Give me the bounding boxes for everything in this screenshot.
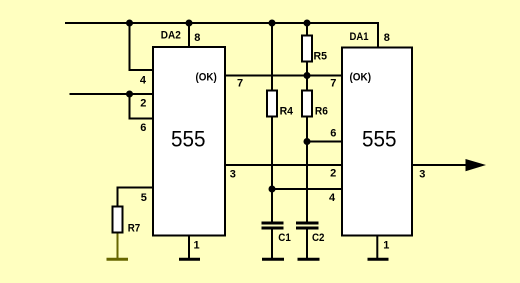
wire DA2 pin 1 to ground (188, 236, 190, 260)
capacitor C1 plates (262, 222, 284, 225)
svg-text:R7: R7 (128, 223, 141, 235)
wire net pin7: DA2 pin7 to DA1 pin7 (225, 75, 342, 77)
svg-text:1: 1 (383, 240, 389, 252)
capacitor C2 plates (296, 222, 319, 225)
wire column A: Vcc through R4 down to C1 (271, 23, 273, 223)
wire C1 lower lead (271, 228, 273, 259)
svg-text:4: 4 (140, 74, 147, 86)
svg-text:C2: C2 (312, 232, 325, 244)
resistor R6 (302, 91, 312, 117)
svg-text:(OK): (OK) (350, 71, 372, 83)
node junction on rail at column A (269, 20, 276, 27)
svg-text:1: 1 (194, 240, 200, 252)
svg-text:6: 6 (140, 122, 146, 134)
node junction on rail at DA2 pin8 (186, 20, 193, 27)
svg-text:7: 7 (237, 78, 243, 90)
ground bar under C1 (262, 258, 284, 261)
svg-text:5: 5 (141, 192, 147, 204)
wire DA2 pin 8 drop (188, 23, 190, 47)
wire DA1 pin 3 output (412, 164, 468, 166)
svg-text:R6: R6 (315, 105, 328, 117)
svg-text:DA1: DA1 (350, 31, 369, 43)
wire DA1 pin 6 stub (307, 141, 342, 143)
wire DA2 pin 5 to R7 (118, 188, 154, 208)
op-amp U2: IC DA1 555 body (342, 48, 412, 236)
wire Vcc top rail (65, 23, 378, 48)
wire net DA1 pin4 from column A (272, 188, 342, 190)
svg-text:DA2: DA2 (161, 30, 181, 42)
svg-text:555: 555 (362, 127, 397, 152)
wire branch to DA2 pin 4 (130, 23, 154, 70)
svg-text:555: 555 (171, 127, 206, 152)
wire R7 lower lead (olive) (117, 232, 119, 260)
svg-text:8: 8 (384, 32, 390, 44)
svg-text:C1: C1 (278, 232, 291, 244)
node junction DA1 pin6 / R6-C2 (304, 138, 311, 145)
svg-text:4: 4 (329, 192, 336, 204)
resistor R7 (113, 207, 123, 233)
node junction pin7 net / R5-R6 (304, 72, 311, 79)
wire C2 lower lead (306, 228, 308, 259)
wire branch DA2 pin 2 to pin 6 (130, 94, 154, 119)
svg-text:R4: R4 (280, 105, 294, 117)
svg-text:7: 7 (330, 78, 336, 90)
svg-text:(OK): (OK) (196, 71, 218, 83)
resistor R4 (267, 91, 277, 117)
svg-text:6: 6 (330, 127, 336, 139)
op-amp U1: IC DA2 555 body (153, 47, 225, 236)
svg-text:3: 3 (419, 169, 425, 181)
ground bar under C2 (298, 258, 320, 261)
node junction DA1 pin4 / column A (269, 186, 276, 193)
wire input to DA2 pin 2 (70, 93, 154, 95)
svg-text:R5: R5 (314, 50, 328, 62)
resistor R5 (302, 36, 312, 62)
ground bar under R7 (olive) (107, 258, 129, 261)
node junction DA2 pin2 (126, 91, 133, 98)
node junction on rail at column B (304, 20, 311, 27)
wire net DA2 pin3 to DA1 pin2 (225, 164, 342, 166)
wire column B: Vcc through R5,R6 down to C2 (306, 23, 308, 223)
wire DA1 pin 1 to ground (376, 236, 378, 260)
svg-text:3: 3 (230, 169, 236, 181)
node junction on rail at input branch (126, 20, 133, 27)
output arrowhead (466, 159, 487, 171)
svg-text:8: 8 (194, 32, 200, 44)
ground bar under DA2 pin1 (179, 258, 200, 261)
ground bar under DA1 pin1 (368, 258, 389, 261)
svg-text:2: 2 (140, 97, 146, 109)
svg-text:2: 2 (330, 168, 336, 180)
